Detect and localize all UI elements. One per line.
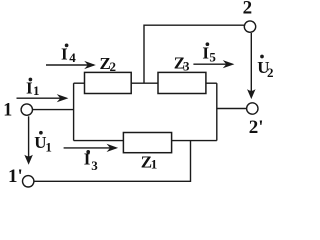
wire node A to Z1 input	[74, 140, 124, 142]
arrowhead I1	[58, 95, 67, 101]
svg-text:4: 4	[69, 50, 76, 65]
resistor Z2	[85, 72, 132, 93]
terminal 1	[21, 104, 32, 115]
wire Z2 to Z3 junction	[131, 82, 158, 84]
terminal 2'	[247, 103, 258, 114]
svg-text:I: I	[61, 45, 68, 64]
wire top rail from junction to terminal 2	[144, 25, 244, 83]
svg-text:I: I	[84, 149, 91, 168]
voltage arrow U1 shaft	[28, 116, 30, 160]
arrowhead I4	[86, 62, 95, 68]
svg-text:I: I	[26, 79, 33, 98]
wire node A vertical	[73, 83, 75, 140]
svg-text:2: 2	[110, 59, 117, 74]
svg-text:3: 3	[183, 59, 190, 74]
phasor dot I1	[29, 78, 32, 81]
svg-text:1: 1	[3, 99, 12, 120]
svg-text:2: 2	[243, 0, 253, 19]
wire terminal 1 to node A	[33, 109, 74, 111]
phasor dot I5	[206, 43, 209, 46]
wire bus to terminal 2'	[217, 108, 247, 110]
arrowhead I5	[224, 61, 233, 67]
current arrow I3 shaft	[64, 147, 117, 149]
wire right bus vertical	[216, 83, 218, 140]
svg-text:2: 2	[267, 65, 274, 80]
svg-text:1: 1	[45, 139, 52, 154]
terminal 1'	[23, 176, 34, 187]
svg-text:2': 2'	[249, 117, 264, 138]
resistor Z1	[123, 133, 171, 153]
terminal 2	[244, 21, 255, 32]
svg-text:3: 3	[91, 158, 98, 173]
phasor dot U1	[40, 131, 43, 134]
svg-text:I: I	[202, 44, 209, 63]
arrowhead I3	[108, 145, 117, 151]
current arrow I5 shaft	[193, 63, 232, 65]
svg-text:1': 1'	[8, 166, 23, 187]
resistor Z3	[158, 72, 206, 93]
arrowhead U1	[25, 156, 32, 164]
svg-text:5: 5	[209, 49, 216, 64]
svg-text:1: 1	[33, 83, 40, 98]
phasor dot U2	[261, 55, 264, 58]
voltage arrow U2 shaft	[250, 33, 252, 95]
phasor dot I4	[65, 44, 68, 47]
wire Z1 output to bus	[172, 140, 217, 142]
arrowhead U2	[248, 90, 255, 98]
wire Z3 output to bus	[206, 82, 217, 84]
current arrow I1 shaft	[17, 97, 67, 99]
wire node A to Z2 input	[74, 82, 85, 84]
current arrow I4 shaft	[46, 64, 94, 66]
svg-text:1: 1	[151, 156, 158, 171]
phasor dot I3	[87, 151, 90, 154]
wire bottom rail from terminal 1'	[34, 141, 190, 182]
